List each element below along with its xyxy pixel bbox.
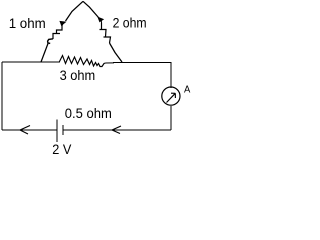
wire: right vertical below ammeter [170,106,172,130]
svg-text:1 ohm: 1 ohm [9,16,46,31]
wire: bottom horizontal (left of battery) [2,129,57,131]
resistor R1 lower lead to left vertex [41,44,48,63]
resistor R2 arrow hook [98,17,103,22]
resistor R1 1 ohm: upper lead from apex [66,1,84,21]
wire: left vertical [1,62,3,130]
wire: bottom horizontal (right of battery) [63,129,171,131]
current arrowhead on bottom wire (left) [20,126,30,135]
svg-text:2 V: 2 V [52,142,71,157]
wire: right vertical above ammeter [170,62,172,88]
resistor R2 2 ohm: upper lead from apex [83,1,99,17]
svg-text:3 ohm: 3 ohm [60,68,96,83]
svg-text:A: A [184,85,191,96]
svg-text:0.5 ohm: 0.5 ohm [65,106,112,121]
wire: top horizontal right segment [106,62,115,64]
resistor R2 lower lead to right vertex [110,43,123,62]
svg-text:2 ohm: 2 ohm [113,16,147,31]
resistor R1 staircase body [53,25,63,39]
resistor R1 arrow hook [60,21,66,25]
resistor R3 3 ohm zigzag [59,56,106,67]
current arrowhead on bottom wire (right) [112,126,121,134]
ammeter U1 circle [162,87,180,105]
battery V1: long plate [56,120,58,143]
resistor R2 staircase body [100,23,111,44]
wire: top horizontal left segment [2,61,59,63]
battery V1: short plate [62,125,64,135]
ammeter needle arrow [167,93,176,102]
